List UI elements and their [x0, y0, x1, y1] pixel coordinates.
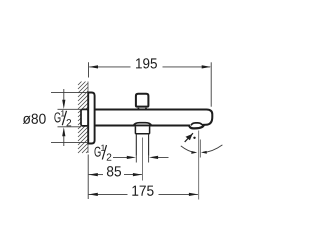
dim 85 arrow left	[89, 173, 98, 176]
dim 175 arrow right	[189, 193, 198, 196]
wall extension line lower	[87, 155, 89, 200]
dim G1/2 arrow down	[63, 89, 65, 103]
dim G1/2 arrow right-pointing	[113, 156, 130, 158]
spout bottom line	[95, 125, 190, 127]
outlet pipe walls	[135, 134, 137, 156]
dim 85 arrow right	[133, 173, 142, 176]
swivel axis second line	[199, 140, 201, 158]
outlet lip bottom	[189, 125, 204, 128]
wall hatch	[78, 82, 88, 154]
label ø80	[23, 114, 46, 124]
dim G1/2 arrow left-pointing	[152, 156, 169, 158]
dim 195 extension tick left	[88, 62, 90, 77]
dim ø80 extension bottom	[51, 142, 88, 144]
flange escutcheon	[88, 93, 94, 144]
outlet centerline	[141, 138, 143, 181]
dim 195 label	[136, 58, 157, 68]
label G1/2 lower	[94, 147, 100, 157]
spout tip centerline extension	[198, 131, 200, 200]
outlet collar	[135, 126, 149, 133]
swivel arc left	[181, 146, 196, 153]
swivel angle symbol	[185, 133, 193, 142]
dim 175 line	[89, 193, 128, 195]
dim 195 extension line right	[210, 62, 212, 106]
outlet dome cap	[134, 123, 152, 126]
spout body	[95, 110, 213, 125]
dim G1/2 extension bottom	[58, 126, 82, 128]
diverter knob	[136, 94, 149, 107]
dim ø80 extension top	[51, 92, 88, 94]
swivel arc right	[203, 145, 223, 153]
dim 195 arrow right	[202, 65, 211, 68]
pipe wall extensions	[135, 156, 137, 163]
knob neck	[138, 108, 146, 110]
outlet lip dome	[191, 123, 202, 126]
dim 195 arrow left	[89, 65, 98, 68]
label G1/2 upper	[54, 112, 60, 122]
dim 195 line	[89, 66, 130, 68]
dim 85 label	[107, 166, 121, 176]
dim 85 line	[89, 174, 103, 176]
pipe stub G1/2 in wall	[81, 109, 88, 126]
dim G1/2 arrow up	[63, 133, 65, 146]
dim G1/2 extension top	[58, 108, 82, 110]
wall face line	[87, 82, 89, 154]
dim 175 label	[132, 186, 153, 196]
dim 175 arrow left	[89, 193, 98, 196]
degree dot	[193, 137, 195, 139]
